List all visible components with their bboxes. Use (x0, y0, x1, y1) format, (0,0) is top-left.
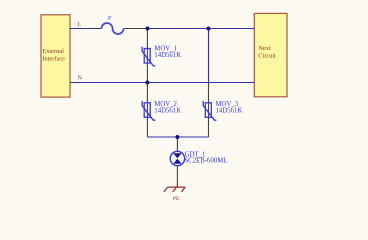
net label L (78, 22, 82, 28)
sheet symbol Next Circuit (254, 13, 287, 96)
svg-text:Interface: Interface (42, 55, 65, 62)
sheet symbol External Interface (41, 15, 70, 97)
svg-text:N: N (78, 76, 83, 82)
power port PE (earth ground) (164, 182, 185, 202)
junction dot bottom node / GDT (175, 135, 179, 139)
wire L: box to fuse (70, 28, 89, 30)
svg-text:L: L (78, 22, 82, 28)
varistor MOV_1 pins (vertical L to N) (146, 29, 148, 83)
varistor MOV_2 (142, 101, 181, 120)
gas discharge tube GDT_1 bottom pin (176, 166, 178, 182)
wire: bottom common node (147, 136, 208, 138)
svg-text:14D561K: 14D561K (154, 107, 181, 114)
junction dot L / fuse / MOV_1 (146, 27, 150, 31)
gas discharge tube GDT_1 top pin (176, 137, 178, 152)
junction dot N / MOV_1 / MOV_2 (145, 81, 149, 85)
junction dot L / MOV_3 branch (207, 27, 211, 31)
svg-text:External: External (42, 48, 64, 55)
svg-text:14D561K: 14D561K (154, 52, 181, 59)
wire N: box to Next Circuit (70, 82, 254, 84)
varistor MOV_3 (203, 101, 242, 120)
wire L: fuse junction to Next Circuit (148, 28, 255, 30)
svg-text:SC2EB-600ML: SC2EB-600ML (184, 158, 227, 165)
gas discharge tube GDT_1 (170, 151, 227, 165)
wire: L junction to MOV_3 (vertical at x=208.5) (208, 29, 210, 84)
fuse F right pin (124, 28, 148, 30)
varistor MOV_1 (142, 46, 181, 66)
net label N (78, 76, 83, 82)
svg-text:F: F (108, 15, 112, 22)
varistor MOV_3 pins (208, 83, 210, 137)
fuse F body (102, 15, 124, 34)
svg-text:14D561K: 14D561K (216, 107, 243, 114)
svg-text:Circuit: Circuit (258, 53, 276, 60)
fuse F left pin (89, 28, 102, 30)
varistor MOV_2 pins (vertical N to bottom wire) (146, 83, 148, 138)
svg-text:Next: Next (258, 45, 271, 52)
svg-text:PE: PE (173, 196, 180, 202)
